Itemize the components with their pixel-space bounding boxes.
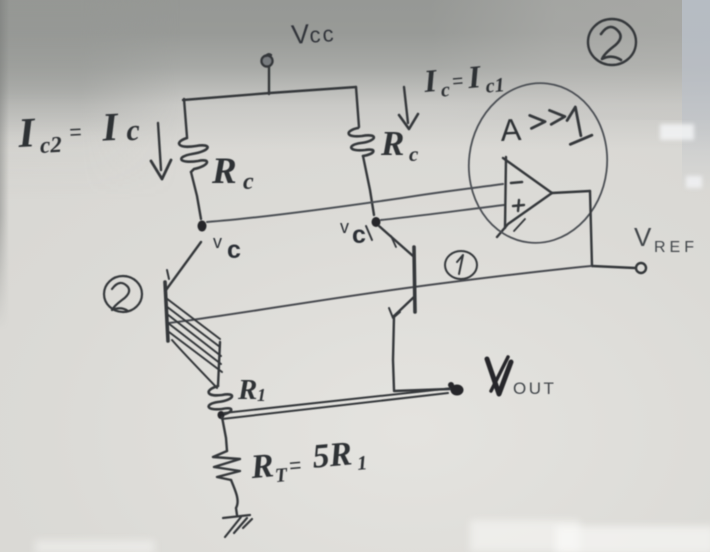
svg-text:=: = [288, 454, 302, 478]
svg-text:REF: REF [654, 239, 698, 256]
label R1 [237, 374, 266, 406]
svg-text:c: c [227, 236, 241, 264]
svg-text:c2: c2 [39, 132, 62, 158]
tick prime of Vc' [366, 226, 372, 240]
svg-text:v: v [213, 232, 222, 252]
svg-text:T: T [274, 464, 289, 487]
node Vout junction dot [448, 382, 464, 396]
Vcc terminal [262, 54, 273, 66]
transistor Q2 (multi-emitter) [165, 242, 201, 341]
label Ic = Ic1 [421, 56, 505, 103]
transistor Q1 [379, 226, 415, 318]
svg-text:V: V [634, 222, 652, 252]
designator circled 2 (page marker top right) [588, 19, 636, 65]
svg-text:=: = [69, 121, 82, 145]
svg-text:I: I [16, 110, 37, 157]
svg-text:R: R [248, 447, 275, 486]
svg-text:OUT: OUT [513, 379, 556, 398]
label Ic2 = Ic [16, 103, 141, 159]
svg-text:c: c [440, 79, 451, 102]
resistor Rc1 (left) [179, 138, 208, 172]
svg-text:c: c [243, 169, 254, 195]
wire top rail [183, 87, 356, 100]
node Vc junction dot [198, 221, 207, 232]
op-amp U1 triangle [497, 157, 552, 237]
wire Q2 emitter to R1 [218, 342, 220, 386]
wire node Vc' to op-amp non-inverting input [381, 205, 504, 220]
svg-text:1: 1 [356, 452, 368, 475]
resistor RT [213, 451, 240, 480]
wire base rail from op-amp output to Q1 and Q2 bases [169, 266, 591, 323]
current arrow Ic1 [399, 87, 418, 129]
designator circled 2 (left) [104, 276, 142, 312]
op-amp gain ellipse [460, 75, 616, 251]
node Vc' junction dot [372, 217, 381, 227]
label VOUT [487, 357, 556, 398]
svg-text:R: R [380, 124, 404, 163]
wire R1 bottom to RT [222, 417, 227, 451]
svg-text:1: 1 [257, 385, 266, 405]
label Rc (right) [380, 124, 419, 166]
wire RT to ground [231, 480, 238, 515]
svg-text:c: c [409, 142, 419, 166]
svg-text:c1: c1 [485, 74, 506, 98]
VREF terminal [636, 263, 646, 273]
wire Rc2 to node Vc' [363, 156, 374, 215]
designator circled 1 [445, 251, 477, 279]
wire Q1 emitter to Vout node [394, 389, 450, 391]
svg-text:=: = [451, 71, 464, 93]
label A >> 1 [499, 106, 592, 148]
wire output down to corner [590, 191, 592, 266]
wire rail to Rc2 [356, 87, 359, 127]
wire Q1 emitter down [393, 316, 394, 390]
svg-text:I: I [421, 62, 439, 99]
Q2 multi-emitter hatch [166, 298, 222, 388]
wire Rc1 to node Vc [191, 172, 201, 219]
resistor R1 [209, 386, 232, 415]
wire op-amp output [552, 191, 590, 193]
op-amp non-inverting input label + [513, 200, 524, 211]
wire Vcc terminal to rail [268, 67, 270, 94]
svg-text:v: v [340, 217, 349, 237]
label Vc [213, 232, 241, 264]
op-amp inverting input label - [511, 182, 522, 183]
label Vcc [290, 17, 336, 50]
svg-text:I: I [100, 104, 120, 150]
svg-text:A: A [500, 112, 523, 148]
svg-text:c: c [125, 114, 140, 148]
wire R1 bottom to Vout node (double) [222, 388, 453, 419]
ground [223, 515, 252, 537]
current arrow Ic2 [151, 123, 171, 179]
label Vc' [340, 217, 366, 249]
wire node Vc to op-amp inverting input [207, 184, 503, 222]
node R1 bottom junction [218, 411, 225, 419]
svg-text:Vcc: Vcc [290, 17, 336, 50]
label RT = 5R1 [248, 434, 368, 489]
svg-text:5R: 5R [311, 435, 354, 475]
svg-text:R: R [211, 151, 237, 192]
wire corner to VREF terminal [592, 266, 635, 268]
label Rc (left) [211, 151, 254, 195]
resistor Rc2 (right) [349, 128, 374, 156]
svg-text:R: R [237, 374, 257, 406]
svg-text:I: I [465, 58, 483, 95]
svg-text:c: c [352, 221, 366, 249]
wire rail to Rc1 [184, 99, 187, 137]
label VREF [634, 222, 698, 256]
